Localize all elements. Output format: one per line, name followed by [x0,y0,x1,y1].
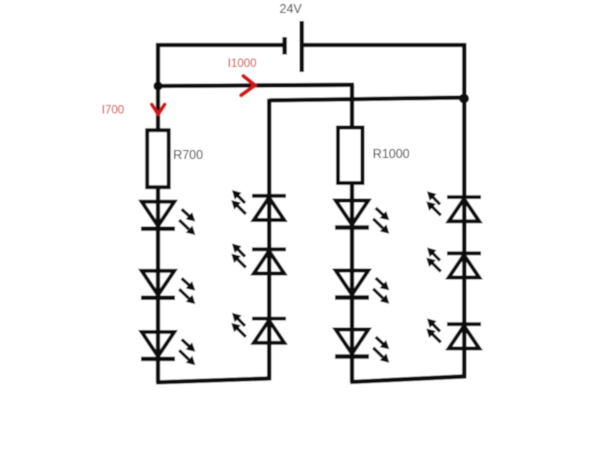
LED D2 (string 1 middle) [141,271,195,304]
wire: string 3 vertical x=352 R1000 to bottom [350,182,354,382]
LED D12 (string 4 bottom) [426,318,481,348]
wire: left vertical x=158 from top wire down to R700 [156,43,160,131]
current arrow I1000 (red chevron on middle wire) [241,76,255,95]
svg-text:R700: R700 [173,148,203,162]
resistor R700 [147,130,169,187]
LED D9 (string 3 bottom) [335,330,389,363]
wire: string 2 vertical x=269 [267,99,271,381]
wire: bottom U left, string1 to string2 [156,378,271,382]
wire: middle horizontal y=86 from node A to R1000 branch [158,85,354,86]
wire: right vertical x=464 from top corner down through node B to string 4 [462,43,466,378]
battery BT1 24V: positive long plate [300,21,304,72]
LED D4 (string 2 top) [231,190,286,220]
wire: battery negative to left branch, top [156,43,284,47]
junction node B at (464,98.5) [459,94,469,104]
resistor R1000 [338,128,363,184]
svg-text:R1000: R1000 [373,147,410,161]
current arrow I700 (red chevron, down) [152,105,165,115]
LED D10 (string 4 top) [426,191,481,221]
wire: top right from battery positive [302,43,466,47]
LED D3 (string 1 bottom) [141,332,195,365]
LED D6 (string 2 bottom) [231,313,286,343]
wire: string 1 vertical x=158 R700 to bottom [156,186,160,383]
battery BT1 24V: negative short plate [282,37,286,55]
LED D11 (string 4 middle) [426,248,481,278]
wire: bottom U right, string3 to string4 [350,376,466,382]
wire: vertical x=352 down to R1000 [350,84,354,129]
svg-text:24V: 24V [280,2,303,16]
svg-text:I700: I700 [102,105,124,117]
LED D1 (string 1 top) [141,202,195,235]
wire: horizontal y=99 string2 top to node B [269,98,466,101]
junction node A at (158,86) [153,81,162,90]
LED D5 (string 2 middle) [231,244,286,274]
LED D7 (string 3 top) [335,201,389,234]
svg-text:I1000: I1000 [228,58,257,70]
LED D8 (string 3 middle) [335,271,389,304]
